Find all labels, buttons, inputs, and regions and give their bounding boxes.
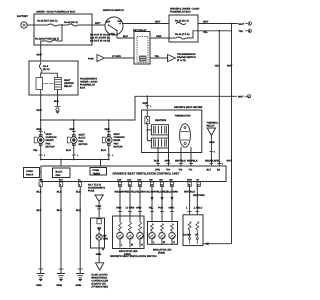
svg-text:IND: IND xyxy=(159,178,163,181)
svg-text:RED: RED xyxy=(105,128,110,131)
svg-text:DRIVER'S SEAT VENTILATION SWIT: DRIVER'S SEAT VENTILATION SWITCH xyxy=(110,255,157,258)
svg-text:YEL: YEL xyxy=(239,30,244,33)
svg-text:DWN: DWN xyxy=(187,178,192,181)
svg-text:LT GRN: LT GRN xyxy=(112,55,121,58)
svg-text:UNDER - HOOD FUSE/RELAY BOX: UNDER - HOOD FUSE/RELAY BOX xyxy=(36,11,76,14)
svg-text:BLK: BLK xyxy=(54,100,59,103)
svg-text:PGM: PGM xyxy=(88,58,93,61)
svg-text:WHT/GRN: WHT/GRN xyxy=(193,194,205,197)
svg-text:FUSE: FUSE xyxy=(88,190,95,193)
svg-text:WHT: WHT xyxy=(239,23,245,26)
svg-text:MOTOR: MOTOR xyxy=(46,146,55,149)
svg-text:BLU: BLU xyxy=(154,160,159,163)
svg-text:WHT: WHT xyxy=(37,54,43,57)
svg-text:THERMOSTAT: THERMOSTAT xyxy=(175,115,192,118)
svg-text:PUR: PUR xyxy=(158,207,163,210)
svg-text:G551: G551 xyxy=(36,284,43,287)
svg-text:BLT: BLT xyxy=(207,169,212,172)
svg-text:RELAY: RELAY xyxy=(64,85,72,88)
svg-text:(P or N): (P or N) xyxy=(177,59,186,62)
svg-text:FAN R: FAN R xyxy=(26,174,33,177)
svg-text:FUSE/RELAY BOX: FUSE/RELAY BOX xyxy=(170,11,191,14)
svg-text:IG1: IG1 xyxy=(111,33,116,36)
svg-text:TH+: TH+ xyxy=(166,169,171,172)
svg-text:DOWN: DOWN xyxy=(184,234,192,237)
svg-text:BLK: BLK xyxy=(76,209,81,212)
svg-text:LED: LED xyxy=(127,178,132,181)
svg-text:RED: RED xyxy=(37,128,42,131)
svg-text:(R&B): (R&B) xyxy=(158,252,165,255)
svg-text:BLK: BLK xyxy=(37,209,42,212)
svg-text:LT GRN: LT GRN xyxy=(126,207,135,210)
svg-text:BLK: BLK xyxy=(59,178,64,181)
svg-text:BLK: BLK xyxy=(37,191,42,194)
svg-text:No.23 (10 A): No.23 (10 A) xyxy=(175,20,189,23)
svg-text:M: M xyxy=(131,244,133,247)
svg-text:YEL: YEL xyxy=(149,207,154,210)
svg-text:IND: IND xyxy=(149,178,153,181)
svg-text:WHT: WHT xyxy=(227,160,233,163)
svg-text:LED: LED xyxy=(117,178,122,181)
svg-text:GRN: GRN xyxy=(169,207,175,210)
svg-text:GRN: GRN xyxy=(96,253,102,256)
svg-text:BOX: BOX xyxy=(80,87,86,90)
svg-text:C: C xyxy=(248,95,250,98)
svg-text:1: 1 xyxy=(44,154,45,157)
svg-text:BLK: BLK xyxy=(57,209,62,212)
svg-text:G553: G553 xyxy=(76,284,83,287)
svg-text:BAT: BAT xyxy=(106,21,111,24)
svg-text:RELAY: RELAY xyxy=(207,125,215,128)
svg-text:1: 1 xyxy=(77,154,78,157)
svg-text:GRN: GRN xyxy=(116,207,122,210)
svg-text:G552: G552 xyxy=(56,284,63,287)
svg-text:H: H xyxy=(173,241,175,244)
svg-text:MOTOR: MOTOR xyxy=(79,143,88,146)
svg-text:CUS: CUS xyxy=(39,178,44,181)
svg-text:FAN: FAN xyxy=(56,174,61,177)
svg-text:1: 1 xyxy=(150,105,151,108)
svg-text:WHT/BLK: WHT/BLK xyxy=(175,160,186,163)
svg-text:GRN: GRN xyxy=(165,160,171,163)
svg-text:No.52 BAT (100 A): No.52 BAT (100 A) xyxy=(37,20,58,23)
svg-text:MOTOR: MOTOR xyxy=(114,146,123,149)
svg-text:BLU: BLU xyxy=(101,149,106,152)
svg-text:(20 A): (20 A) xyxy=(43,68,50,71)
svg-text:1: 1 xyxy=(222,163,223,166)
svg-text:C582: C582 xyxy=(96,205,102,208)
svg-text:BLU: BLU xyxy=(66,149,71,152)
svg-text:YEL: YEL xyxy=(215,65,220,68)
svg-text:YEL: YEL xyxy=(215,160,220,163)
svg-text:H: H xyxy=(141,244,143,247)
svg-text:YEL: YEL xyxy=(33,149,38,152)
svg-text:YEL/GRN: YEL/GRN xyxy=(135,191,146,194)
svg-text:1.7 BLU: 1.7 BLU xyxy=(194,207,203,210)
svg-text:13: 13 xyxy=(102,248,104,251)
svg-text:WHT: WHT xyxy=(238,96,244,99)
svg-text:RED: RED xyxy=(143,102,148,105)
svg-text:HTR: HTR xyxy=(155,169,160,172)
svg-text:GRN: GRN xyxy=(209,141,215,144)
svg-text:UP: UP xyxy=(195,234,199,237)
svg-text:TIMER: TIMER xyxy=(93,172,101,175)
svg-text:RED/BLK: RED/BLK xyxy=(187,160,198,163)
svg-text:WHT: WHT xyxy=(203,21,209,24)
svg-text:GRN: GRN xyxy=(136,207,142,210)
svg-text:LED: LED xyxy=(137,178,142,181)
svg-text:TH-: TH- xyxy=(179,169,183,172)
svg-text:BLK: BLK xyxy=(57,191,62,194)
svg-text:YEL: YEL xyxy=(155,55,160,58)
svg-text:WHT: WHT xyxy=(227,65,233,68)
svg-text:M: M xyxy=(163,241,165,244)
svg-text:ATTENUATED): ATTENUATED) xyxy=(91,286,108,289)
svg-text:IG2: IG2 xyxy=(118,20,123,23)
svg-text:BLU/GRN: BLU/GRN xyxy=(167,191,178,194)
svg-text:BLU: BLU xyxy=(123,35,128,38)
svg-text:RED: RED xyxy=(70,128,75,131)
svg-text:IGNITION SWITCH: IGNITION SWITCH xyxy=(103,9,124,12)
svg-text:LRN: LRN xyxy=(103,238,108,241)
svg-text:WHT: WHT xyxy=(37,109,43,112)
svg-text:WHT: WHT xyxy=(155,21,161,24)
svg-text:DRIVER'S SEAT VENTILATION CONT: DRIVER'S SEAT VENTILATION CONTROL UNIT xyxy=(113,172,180,176)
svg-text:BLK: BLK xyxy=(76,191,81,194)
svg-text:TH-: TH- xyxy=(189,169,193,172)
svg-text:GRN: GRN xyxy=(156,35,162,38)
svg-text:1: 1 xyxy=(112,154,113,157)
svg-text:YEL: YEL xyxy=(203,31,208,34)
svg-text:DRIVER'S SEAT HEATER: DRIVER'S SEAT HEATER xyxy=(174,106,203,109)
svg-text:No.19 (7.5 A): No.19 (7.5 A) xyxy=(175,33,190,36)
svg-text:HEATERS: HEATERS xyxy=(155,119,167,122)
svg-text:(G) HOT IN ON (II): (G) HOT IN ON (II) xyxy=(90,40,110,43)
svg-text:IND: IND xyxy=(169,178,173,181)
svg-text:BATTERY: BATTERY xyxy=(17,15,28,18)
